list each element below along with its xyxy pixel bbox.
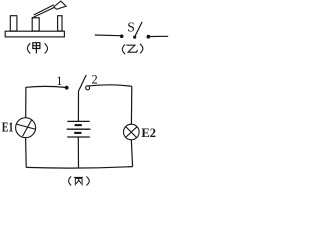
- svg-text:2: 2: [92, 73, 98, 87]
- lamp E1: [16, 118, 36, 138]
- switch S blade (open): [135, 22, 142, 37]
- knife switch handle: [54, 1, 66, 9]
- wire: left lead of switch S (figure 乙): [95, 34, 121, 37]
- circuit bottom wire: [26, 167, 132, 169]
- node 2 terminal circle: [86, 86, 90, 90]
- circuit left wire, lower segment: [25, 138, 28, 168]
- circuit top wire, right segment from node 2: [86, 85, 132, 86]
- battery pack (three cells): [67, 121, 91, 137]
- label (甲): [27, 43, 47, 54]
- wire: battery branch bottom stub: [77, 137, 79, 168]
- battery long plate 3: [67, 136, 90, 138]
- circuit right wire, lower segment: [131, 139, 132, 166]
- battery short plate 2: [74, 132, 81, 134]
- battery long plate 1: [67, 120, 89, 122]
- svg-text:S: S: [127, 20, 135, 35]
- label (乙): [122, 44, 143, 54]
- svg-text:E2: E2: [141, 126, 156, 140]
- circuit left wire, upper segment: [25, 87, 27, 118]
- svg-text:E1: E1: [2, 120, 14, 135]
- svg-text:1: 1: [56, 74, 62, 88]
- circuit right wire, upper segment: [130, 86, 132, 125]
- knife switch blade (two parallel edges, lifted open): [32, 5, 55, 18]
- battery short plate 1: [75, 124, 82, 126]
- wire: right lead of switch S: [150, 35, 168, 37]
- battery long plate 2: [67, 128, 91, 130]
- circuit top wire, left segment to node 1: [26, 86, 67, 87]
- knife switch left terminal post: [10, 16, 17, 31]
- knife switch right terminal post: [58, 16, 62, 31]
- selector switch blade (from battery branch, open): [79, 75, 87, 91]
- wire: battery branch top stub: [77, 91, 79, 121]
- switch S pivot dot: [133, 36, 136, 39]
- switch S right terminal dot: [147, 35, 151, 39]
- lamp E2: [124, 124, 140, 140]
- switch S left terminal dot: [120, 34, 124, 38]
- knife switch center hinge post: [32, 18, 39, 31]
- knife switch base (figure 甲): [5, 31, 64, 37]
- label (丙): [69, 176, 90, 185]
- node 1 terminal dot: [65, 86, 69, 90]
